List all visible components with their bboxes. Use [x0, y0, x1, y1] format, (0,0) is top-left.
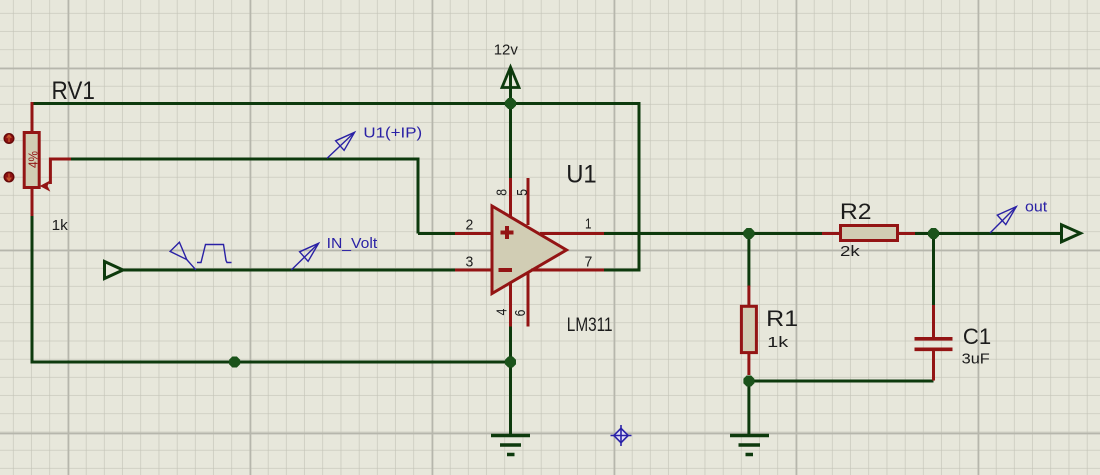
- svg-text:2k: 2k: [840, 243, 860, 260]
- pin 2 stub: [455, 232, 492, 235]
- pin 6 stub: [527, 273, 530, 327]
- wire bottom rail R1 to C1: [749, 380, 934, 383]
- plus symbol: [501, 226, 514, 239]
- capacitor C1: [915, 305, 992, 381]
- pin 4 stub: [509, 283, 512, 327]
- wire RV1 wiper horizontal: [70, 158, 418, 161]
- svg-text:IN_Volt: IN_Volt: [327, 235, 378, 252]
- pin 8 stub: [509, 178, 512, 218]
- wire to ground 1: [509, 362, 512, 436]
- wire right vertical from top rail to pin 7: [638, 102, 641, 270]
- resistor R2: [822, 199, 915, 260]
- node junction output left: [743, 228, 754, 239]
- ground 2: [730, 436, 769, 455]
- minus symbol: [499, 268, 513, 272]
- svg-text:RV1: RV1: [52, 77, 95, 105]
- wire node to C1 top: [932, 234, 935, 307]
- ground 1: [491, 436, 530, 455]
- svg-text:12v: 12v: [494, 42, 519, 59]
- pin 5 stub: [527, 178, 530, 225]
- probe arrow out: [990, 207, 1016, 233]
- node junction bottom rail: [229, 357, 240, 368]
- node junction output right C1: [928, 228, 939, 239]
- svg-text:R1: R1: [766, 306, 798, 331]
- svg-text:5: 5: [515, 189, 531, 196]
- wire wiper vertical: [417, 158, 420, 234]
- node junction ground 1: [505, 357, 516, 368]
- svg-text:7: 7: [585, 254, 593, 271]
- svg-text:1k: 1k: [767, 334, 789, 351]
- svg-text:1k: 1k: [52, 217, 69, 234]
- resistor R1: [741, 286, 798, 376]
- potentiometer RV1: [24, 102, 71, 216]
- svg-text:C1: C1: [963, 324, 991, 349]
- op-amp U1 LM311: [455, 161, 613, 337]
- probe arrow IN_Volt: [291, 243, 318, 270]
- svg-text:U1(+IP): U1(+IP): [363, 125, 422, 142]
- wire to pin 2: [418, 232, 455, 235]
- body triangle: [492, 206, 567, 294]
- RV1 adjust button up: [4, 134, 14, 144]
- node junction ground 2: [743, 376, 754, 387]
- wire RV1 left vertical: [31, 214, 34, 363]
- probe arrow U1(+IP): [327, 132, 355, 158]
- svg-text:out: out: [1025, 199, 1048, 216]
- svg-text:3: 3: [466, 254, 474, 271]
- svg-text:8: 8: [495, 189, 511, 196]
- pin 3 stub: [455, 269, 492, 272]
- svg-text:2: 2: [466, 217, 474, 234]
- pin 1 stub: [540, 232, 604, 235]
- generator waveform trapezoid: [197, 245, 232, 263]
- svg-text:1: 1: [585, 216, 592, 233]
- input terminal arrow: [105, 262, 124, 279]
- wire pin 1 to R2: [604, 232, 823, 235]
- wire top rail: [31, 102, 640, 105]
- svg-text:3uF: 3uF: [962, 351, 990, 368]
- wire input to pin 3: [120, 269, 455, 272]
- wire bottom rail: [31, 361, 511, 364]
- output terminal arrow: [1062, 225, 1081, 242]
- power symbol 12v: [494, 42, 519, 104]
- wire R2 to output arrow: [914, 232, 1063, 235]
- svg-text:4%: 4%: [26, 151, 41, 168]
- wire pin 7 to vertical: [602, 269, 641, 272]
- node junction at 12v rail: [505, 98, 516, 109]
- RV1 adjust button down: [4, 172, 14, 182]
- wire node to R1 top: [747, 234, 750, 287]
- svg-text:U1: U1: [566, 161, 597, 189]
- generator probe arrow: [170, 242, 196, 270]
- wire 12v junction to pin 8: [509, 104, 512, 179]
- pin 7 stub: [531, 269, 604, 272]
- svg-text:LM311: LM311: [567, 315, 613, 336]
- svg-text:6: 6: [513, 310, 529, 317]
- svg-text:R2: R2: [840, 199, 872, 224]
- origin marker: [611, 425, 632, 446]
- wire to ground 2: [747, 381, 750, 436]
- wire below pin 4: [509, 324, 512, 362]
- svg-text:4: 4: [495, 309, 511, 316]
